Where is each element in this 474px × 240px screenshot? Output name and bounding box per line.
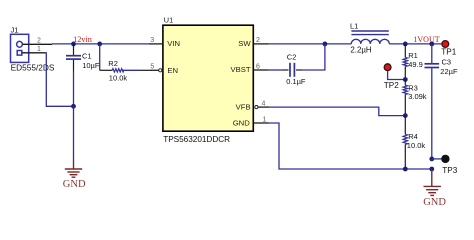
svg-text:L1: L1 bbox=[350, 22, 358, 31]
node junction R1 top bbox=[403, 42, 408, 47]
U1 value TPS563201DDCR bbox=[163, 135, 230, 144]
svg-text:TP1: TP1 bbox=[441, 47, 456, 56]
svg-text:R4: R4 bbox=[408, 132, 418, 141]
R2 designator label bbox=[108, 59, 118, 68]
test point TP1 bbox=[442, 41, 449, 48]
U1 designator label bbox=[164, 16, 173, 25]
node junction TP3 bbox=[429, 157, 434, 162]
R2 value 10.0k bbox=[109, 74, 128, 83]
svg-text:2: 2 bbox=[37, 38, 41, 45]
resistor R3 bbox=[403, 80, 407, 116]
node junction R3 bottom bbox=[403, 113, 408, 118]
node junction R4 bottom bbox=[403, 167, 408, 172]
svg-text:12vin: 12vin bbox=[73, 35, 92, 44]
TP2 label bbox=[384, 81, 399, 90]
svg-text:GND: GND bbox=[233, 119, 251, 128]
ground symbol right bbox=[424, 169, 441, 195]
ground symbol left bbox=[65, 160, 82, 178]
C2 value 0.1µF bbox=[286, 77, 306, 86]
GND label right bbox=[423, 197, 446, 208]
net label 12vin bbox=[73, 35, 92, 44]
wire 1VOUT rail bbox=[389, 43, 441, 45]
test point TP2 bbox=[384, 64, 391, 71]
svg-text:SW: SW bbox=[238, 39, 251, 48]
node junction C1 bottom bbox=[71, 104, 76, 109]
svg-text:GND: GND bbox=[423, 197, 446, 208]
wire R2 to EN bbox=[122, 69, 150, 71]
U1 pin 4 VFB bbox=[236, 100, 270, 111]
U1 pin 5 EN bbox=[150, 64, 178, 75]
C1 designator label bbox=[82, 51, 92, 60]
svg-text:R1: R1 bbox=[408, 51, 418, 60]
svg-text:VIN: VIN bbox=[167, 39, 180, 48]
svg-text:TPS563201DDCR: TPS563201DDCR bbox=[163, 135, 230, 144]
R3 value 3.09k bbox=[408, 92, 427, 101]
svg-text:VBST: VBST bbox=[231, 65, 251, 74]
resistor R2 bbox=[112, 69, 123, 72]
L1 designator label bbox=[350, 22, 358, 31]
resistor R1 bbox=[403, 44, 407, 80]
svg-text:10µF: 10µF bbox=[82, 61, 100, 70]
svg-text:5: 5 bbox=[150, 64, 154, 71]
C2 designator label bbox=[287, 53, 297, 62]
U1 pin 3 VIN bbox=[148, 37, 180, 48]
svg-text:1VOUT: 1VOUT bbox=[413, 35, 439, 44]
svg-text:1: 1 bbox=[263, 116, 267, 123]
J1 pin 1 bbox=[22, 46, 46, 53]
node junction C3 bottom rail bbox=[429, 167, 434, 172]
svg-text:3.09k: 3.09k bbox=[408, 92, 427, 101]
C3 designator label bbox=[442, 58, 452, 67]
svg-text:TP2: TP2 bbox=[384, 81, 399, 90]
svg-text:4: 4 bbox=[262, 100, 266, 107]
svg-text:U1: U1 bbox=[164, 16, 173, 25]
wire TP3 stub bbox=[432, 158, 442, 160]
TP3 label bbox=[442, 166, 457, 175]
capacitor C3 bbox=[425, 44, 440, 159]
op-amp U1 body bbox=[163, 25, 253, 131]
svg-text:TP3: TP3 bbox=[442, 166, 457, 175]
resistor R4 bbox=[403, 116, 407, 169]
node junction C2 branch bbox=[323, 42, 328, 47]
wire J1 pin1 down bbox=[46, 53, 74, 107]
svg-text:22µF: 22µF bbox=[440, 67, 458, 76]
svg-text:1: 1 bbox=[37, 46, 41, 53]
R1 designator label bbox=[408, 51, 418, 60]
TP1 label bbox=[441, 47, 456, 56]
svg-text:2: 2 bbox=[256, 37, 260, 44]
node junction C1 top bbox=[71, 42, 76, 47]
capacitor C1 bbox=[66, 44, 81, 71]
GND label left bbox=[63, 179, 86, 190]
node junction feedback bbox=[403, 77, 408, 82]
inductor L1 bbox=[351, 31, 389, 44]
C3 value 22µF bbox=[440, 67, 458, 76]
R4 value 10.0k bbox=[407, 141, 426, 150]
U1 pin 2 SW bbox=[238, 37, 268, 48]
wire VFB to divider bbox=[269, 107, 405, 116]
svg-text:C3: C3 bbox=[442, 58, 452, 67]
wire to ground left bbox=[73, 106, 75, 159]
wire C2 right branch bbox=[296, 44, 325, 70]
svg-text:ED555/2DS: ED555/2DS bbox=[11, 62, 55, 72]
R4 designator label bbox=[408, 132, 418, 141]
wire TP2 to feedback node bbox=[388, 71, 406, 80]
connector J1 body bbox=[11, 34, 29, 62]
L1 value 2.2µH bbox=[350, 46, 372, 55]
U1 pin 1 GND bbox=[233, 116, 269, 127]
wire VBST to C2 bbox=[269, 69, 289, 71]
capacitor C2 bbox=[290, 63, 294, 77]
svg-text:2.2µH: 2.2µH bbox=[350, 46, 372, 55]
wire U1 GND to bottom rail bbox=[269, 123, 432, 169]
svg-text:VFB: VFB bbox=[236, 103, 251, 112]
wire SW rail bbox=[269, 43, 352, 45]
node junction R2 branch bbox=[97, 42, 102, 47]
node junction C3 top bbox=[429, 42, 434, 47]
svg-text:C2: C2 bbox=[287, 53, 297, 62]
svg-text:0.1µF: 0.1µF bbox=[286, 77, 306, 86]
svg-text:C1: C1 bbox=[82, 51, 92, 60]
J1 value label ED555/2DS bbox=[11, 62, 55, 72]
J1 designator label bbox=[11, 26, 19, 35]
wire 12vin rail bbox=[52, 43, 148, 45]
svg-text:3: 3 bbox=[150, 37, 154, 44]
wire R2 branch bbox=[100, 44, 113, 70]
svg-text:J1: J1 bbox=[11, 26, 19, 35]
J1 pin 2 bbox=[22, 38, 52, 45]
R1 value 49.9 bbox=[408, 60, 423, 69]
U1 pin 6 VBST bbox=[231, 63, 269, 74]
svg-text:EN: EN bbox=[167, 66, 178, 75]
svg-text:49.9: 49.9 bbox=[408, 60, 423, 69]
svg-text:6: 6 bbox=[256, 63, 260, 70]
svg-text:10.0k: 10.0k bbox=[407, 141, 426, 150]
net label 1VOUT bbox=[413, 35, 439, 44]
R3 designator label bbox=[408, 84, 418, 93]
C1 value 10µF bbox=[82, 61, 100, 70]
svg-text:R2: R2 bbox=[108, 59, 118, 68]
svg-text:10.0k: 10.0k bbox=[109, 74, 128, 83]
wire C1 bottom to junction bbox=[73, 71, 75, 106]
svg-text:GND: GND bbox=[63, 179, 86, 190]
test point TP3 bbox=[441, 155, 449, 163]
